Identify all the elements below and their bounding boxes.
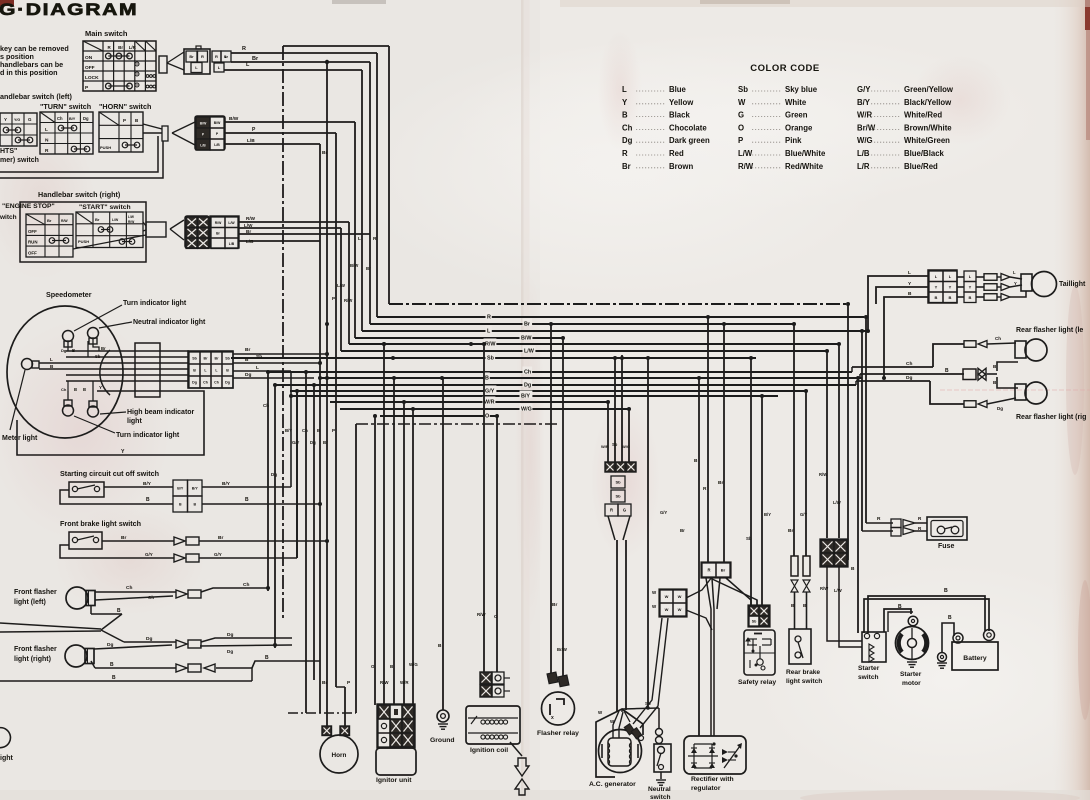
svg-text:"HORN" switch: "HORN" switch <box>99 102 151 111</box>
svg-text:Br: Br <box>47 218 52 223</box>
svg-text:B: B <box>948 615 952 621</box>
svg-text:Br: Br <box>680 528 685 533</box>
svg-text:P: P <box>332 428 335 433</box>
svg-text:Pink: Pink <box>785 136 802 145</box>
svg-text:B/Y: B/Y <box>143 481 152 487</box>
svg-text:Yellow: Yellow <box>669 98 694 107</box>
svg-text:Br: Br <box>118 45 123 50</box>
svg-text:Br: Br <box>721 568 726 573</box>
svg-text:motor: motor <box>902 680 921 687</box>
svg-text:Dg: Dg <box>107 642 113 648</box>
svg-text:L/B: L/B <box>214 143 220 147</box>
svg-text:Turn indicator light: Turn indicator light <box>116 432 180 439</box>
svg-text:B: B <box>438 643 442 649</box>
svg-text:Safety relay: Safety relay <box>738 679 776 686</box>
svg-text:G/Y: G/Y <box>214 552 222 557</box>
svg-text:Sb: Sb <box>738 85 748 94</box>
svg-text:Ch: Ch <box>622 123 633 132</box>
svg-text:light switch: light switch <box>786 678 822 685</box>
svg-text:d in this position: d in this position <box>0 68 58 77</box>
svg-text:Ch: Ch <box>126 585 132 591</box>
svg-text:W/G: W/G <box>857 136 873 145</box>
svg-text:Sb: Sb <box>752 620 757 624</box>
svg-text:R: R <box>215 54 218 59</box>
svg-text:B: B <box>179 503 182 507</box>
svg-text:Ch: Ch <box>524 370 531 376</box>
svg-text:Rectifier with: Rectifier with <box>691 776 734 783</box>
svg-text:Green: Green <box>785 111 808 120</box>
svg-text:Chocolate: Chocolate <box>669 123 707 132</box>
svg-text:Neutral indicator light: Neutral indicator light <box>133 319 206 326</box>
svg-text:light: light <box>127 418 142 425</box>
svg-text:Blue/Red: Blue/Red <box>904 162 938 171</box>
svg-text:Neutral: Neutral <box>648 786 671 793</box>
svg-text:Ch: Ch <box>263 403 269 408</box>
svg-text:Dg: Dg <box>192 381 197 385</box>
svg-text:R: R <box>487 315 491 321</box>
svg-text:Starter: Starter <box>858 665 880 672</box>
svg-text:P: P <box>123 118 126 123</box>
svg-text:R: R <box>610 508 613 513</box>
svg-text:Dg: Dg <box>227 649 233 654</box>
svg-text:"START" switch: "START" switch <box>79 204 131 211</box>
svg-text:Flasher relay: Flasher relay <box>537 730 579 737</box>
svg-text:B: B <box>851 566 855 572</box>
svg-text:R/W: R/W <box>344 298 353 303</box>
svg-text:Br: Br <box>366 266 371 271</box>
svg-text:O: O <box>485 414 489 420</box>
svg-text:Y: Y <box>969 284 972 289</box>
svg-text:Speedometer: Speedometer <box>46 290 92 299</box>
svg-text:L/R: L/R <box>857 162 870 171</box>
svg-text:L: L <box>908 270 911 276</box>
svg-text:W/R: W/R <box>857 111 873 120</box>
svg-text:Ch: Ch <box>995 336 1001 341</box>
svg-text:W: W <box>665 594 669 599</box>
svg-text:R/W: R/W <box>246 216 256 221</box>
svg-text:B/Y: B/Y <box>177 487 184 491</box>
svg-text:Ignitor unit: Ignitor unit <box>376 777 412 784</box>
svg-text:B/Y: B/Y <box>764 512 771 517</box>
svg-text:Ch: Ch <box>203 381 208 385</box>
svg-text:Ch: Ch <box>906 361 912 367</box>
svg-text:Front flasher: Front flasher <box>14 646 57 653</box>
svg-text:Front flasher: Front flasher <box>14 589 57 596</box>
svg-text:B: B <box>110 662 114 668</box>
svg-text:N: N <box>45 138 49 144</box>
svg-text:Br: Br <box>788 528 793 534</box>
svg-text:R/W: R/W <box>820 586 828 591</box>
svg-text:W/R: W/R <box>484 400 495 406</box>
svg-text:Ignition coil: Ignition coil <box>470 747 508 754</box>
svg-text:L: L <box>45 127 48 133</box>
svg-text:Br: Br <box>622 162 631 171</box>
svg-text:Dg: Dg <box>622 136 633 145</box>
svg-text:PUSH: PUSH <box>78 239 89 244</box>
svg-text:B/W: B/W <box>200 122 207 126</box>
svg-text:LOCK: LOCK <box>85 75 99 81</box>
svg-text:W/R: W/R <box>601 444 609 449</box>
svg-text:R/W: R/W <box>738 162 754 171</box>
svg-text:Green/Yellow: Green/Yellow <box>904 85 954 94</box>
svg-text:Blue/Black: Blue/Black <box>904 149 945 158</box>
svg-text:Sb: Sb <box>192 357 197 361</box>
svg-text:R/W: R/W <box>819 472 827 477</box>
svg-text:R: R <box>707 568 710 573</box>
svg-text:L/W: L/W <box>834 588 842 593</box>
svg-text:L/B: L/B <box>200 144 206 148</box>
svg-text:Fuse: Fuse <box>938 543 954 550</box>
svg-text:W/G: W/G <box>521 407 532 413</box>
svg-text:G/Y: G/Y <box>800 512 807 517</box>
svg-text:R/W: R/W <box>380 680 389 685</box>
svg-text:Sb: Sb <box>746 536 752 541</box>
svg-text:R: R <box>373 236 377 242</box>
svg-text:Dg: Dg <box>245 372 251 378</box>
svg-text:witch: witch <box>0 214 17 221</box>
svg-text:Blue/White: Blue/White <box>785 149 826 158</box>
svg-text:G: G <box>623 508 626 513</box>
svg-text:x: x <box>551 715 554 721</box>
svg-text:B: B <box>622 111 628 120</box>
svg-text:W: W <box>665 607 669 612</box>
svg-text:Y: Y <box>99 385 102 390</box>
svg-text:L/B: L/B <box>246 239 254 244</box>
svg-text:Ch: Ch <box>302 428 308 433</box>
svg-text:Y: Y <box>121 449 125 455</box>
svg-text:L/B: L/B <box>247 138 255 144</box>
svg-text:B: B <box>390 664 393 669</box>
svg-text:Ch: Ch <box>243 582 249 588</box>
svg-text:Br: Br <box>218 535 223 541</box>
svg-text:W/R: W/R <box>400 680 409 685</box>
svg-text:B: B <box>898 604 902 610</box>
svg-text:Ch: Ch <box>57 116 63 121</box>
svg-text:B: B <box>245 497 249 503</box>
svg-text:B/Y: B/Y <box>192 487 199 491</box>
svg-text:switch: switch <box>650 794 671 800</box>
svg-text:G/Y: G/Y <box>857 85 871 94</box>
svg-text:R/W: R/W <box>128 220 134 224</box>
svg-text:P: P <box>332 296 335 301</box>
svg-text:Br: Br <box>322 150 327 156</box>
svg-text:R: R <box>201 54 204 59</box>
svg-text:B: B <box>945 368 949 374</box>
svg-text:B/Y: B/Y <box>857 98 871 107</box>
svg-text:L: L <box>622 85 627 94</box>
svg-text:L/W: L/W <box>244 223 253 228</box>
svg-text:B/W: B/W <box>350 263 359 268</box>
svg-text:Orange: Orange <box>785 123 813 132</box>
svg-text:Y: Y <box>4 117 7 122</box>
svg-text:Br: Br <box>322 680 327 686</box>
svg-text:Dg: Dg <box>83 116 89 121</box>
svg-text:B: B <box>694 458 698 464</box>
svg-text:Br: Br <box>95 217 100 222</box>
svg-text:B: B <box>944 588 948 594</box>
svg-text:Br: Br <box>215 357 220 361</box>
svg-text:Br: Br <box>552 602 557 608</box>
svg-text:Black/Yellow: Black/Yellow <box>904 98 952 107</box>
svg-text:Br: Br <box>245 347 250 353</box>
svg-text:Sky blue: Sky blue <box>785 85 818 94</box>
svg-text:P: P <box>738 136 743 145</box>
svg-text:L/W: L/W <box>833 500 841 505</box>
svg-text:OFF: OFF <box>85 65 95 71</box>
svg-text:L/B: L/B <box>857 149 870 158</box>
svg-text:W: W <box>738 98 746 107</box>
svg-text:O: O <box>738 123 744 132</box>
svg-text:Sb: Sb <box>95 354 101 359</box>
svg-text:G/Y: G/Y <box>292 440 300 445</box>
svg-text:Dg: Dg <box>225 381 230 385</box>
svg-text:High beam indicator: High beam indicator <box>127 409 195 416</box>
svg-text:Sb: Sb <box>615 480 621 485</box>
svg-text:B: B <box>117 608 121 614</box>
svg-text:L/W: L/W <box>228 221 235 225</box>
svg-text:Handlebar switch (right): Handlebar switch (right) <box>38 190 121 199</box>
svg-text:Br: Br <box>101 346 106 351</box>
svg-text:B: B <box>72 348 75 353</box>
svg-text:Br/W: Br/W <box>557 647 567 652</box>
svg-text:White/Red: White/Red <box>904 111 942 120</box>
svg-text:R: R <box>242 46 246 52</box>
svg-text:Br: Br <box>121 535 126 541</box>
svg-text:switch: switch <box>858 674 879 681</box>
svg-text:Main switch: Main switch <box>85 29 128 38</box>
svg-text:B: B <box>949 295 952 300</box>
svg-text:Dg: Dg <box>310 440 316 445</box>
svg-text:B: B <box>83 387 86 392</box>
svg-text:White: White <box>785 98 807 107</box>
svg-text:Br/W: Br/W <box>857 123 876 132</box>
svg-text:R/W: R/W <box>477 612 486 617</box>
svg-text:R/W: R/W <box>61 219 68 223</box>
svg-text:Y: Y <box>935 284 938 289</box>
svg-text:W/G: W/G <box>409 662 418 667</box>
svg-text:andlebar switch (left): andlebar switch (left) <box>0 92 72 101</box>
svg-text:RUN: RUN <box>28 240 38 245</box>
svg-text:G/Y: G/Y <box>485 389 495 395</box>
svg-text:Dg: Dg <box>997 406 1003 411</box>
svg-text:L: L <box>50 357 53 362</box>
svg-text:Dg: Dg <box>524 383 531 389</box>
svg-text:regulator: regulator <box>691 785 721 792</box>
svg-text:G·DIAGRAM: G·DIAGRAM <box>0 1 138 19</box>
svg-text:Red: Red <box>669 149 684 158</box>
svg-text:B: B <box>226 369 229 373</box>
svg-text:Dg: Dg <box>61 348 67 353</box>
svg-text:Ch: Ch <box>61 387 67 392</box>
svg-text:Dg: Dg <box>227 632 233 638</box>
svg-text:ight: ight <box>0 755 13 762</box>
svg-text:O: O <box>494 614 498 620</box>
svg-text:Horn: Horn <box>332 752 347 759</box>
svg-text:Front brake light switch: Front brake light switch <box>60 519 141 528</box>
svg-text:B/Y: B/Y <box>222 481 231 487</box>
svg-text:Blue: Blue <box>669 85 687 94</box>
svg-text:W: W <box>678 594 682 599</box>
svg-text:B: B <box>245 357 249 363</box>
svg-text:Sb: Sb <box>612 442 618 447</box>
svg-text:B/Y: B/Y <box>69 117 76 121</box>
svg-text:B/W: B/W <box>229 116 239 122</box>
svg-text:light (left): light (left) <box>14 599 46 606</box>
svg-text:B/Y: B/Y <box>521 394 530 400</box>
svg-text:G/Y: G/Y <box>660 510 667 515</box>
svg-text:OFF: OFF <box>28 250 37 255</box>
svg-text:light (right): light (right) <box>14 656 51 663</box>
svg-text:L/W: L/W <box>524 349 535 355</box>
svg-text:L/W: L/W <box>337 283 346 288</box>
svg-text:Br: Br <box>189 55 194 59</box>
svg-text:L/W: L/W <box>112 218 119 222</box>
svg-text:ON: ON <box>85 55 93 61</box>
svg-text:Dark green: Dark green <box>669 136 710 145</box>
svg-text:Ch: Ch <box>214 381 219 385</box>
svg-text:Meter light: Meter light <box>2 435 38 442</box>
svg-text:Rear brake: Rear brake <box>786 669 820 676</box>
svg-text:W: W <box>678 607 682 612</box>
svg-text:Br: Br <box>252 56 259 62</box>
svg-text:B: B <box>908 291 912 297</box>
svg-text:L: L <box>358 236 361 242</box>
svg-text:O: O <box>371 664 375 669</box>
svg-text:A.C. generator: A.C. generator <box>589 781 636 788</box>
svg-text:B: B <box>969 295 972 300</box>
svg-text:R/W: R/W <box>215 221 222 225</box>
svg-text:Sb: Sb <box>256 354 262 360</box>
svg-text:"TURN" switch: "TURN" switch <box>40 102 91 111</box>
svg-text:Starter: Starter <box>900 671 922 678</box>
svg-text:Red/White: Red/White <box>785 162 824 171</box>
svg-text:L/W: L/W <box>738 149 753 158</box>
svg-text:White/Green: White/Green <box>904 136 950 145</box>
svg-text:G: G <box>28 117 32 122</box>
svg-text:B: B <box>485 376 489 382</box>
svg-text:R/W: R/W <box>485 342 496 348</box>
svg-text:Y: Y <box>949 284 952 289</box>
svg-text:Rear flasher light (rig: Rear flasher light (rig <box>1016 414 1086 421</box>
svg-text:G/Y: G/Y <box>145 552 153 557</box>
svg-text:Br: Br <box>323 440 328 445</box>
svg-text:Turn indicator light: Turn indicator light <box>123 300 187 307</box>
svg-text:Br: Br <box>246 229 251 234</box>
svg-text:L: L <box>256 365 259 371</box>
svg-text:Y: Y <box>622 98 628 107</box>
svg-text:R: R <box>45 148 49 154</box>
svg-text:Dg: Dg <box>271 472 277 477</box>
svg-text:L: L <box>1013 270 1016 275</box>
svg-text:L/R: L/R <box>129 45 137 50</box>
svg-text:B: B <box>146 497 150 503</box>
svg-text:COLOR CODE: COLOR CODE <box>750 63 819 74</box>
svg-text:Ch: Ch <box>148 595 154 600</box>
svg-text:B: B <box>193 369 196 373</box>
svg-text:Br: Br <box>718 480 723 486</box>
svg-text:Dg: Dg <box>906 375 912 381</box>
svg-text:B: B <box>265 655 269 661</box>
svg-text:Y: Y <box>1014 281 1017 286</box>
svg-text:Sb: Sb <box>487 356 495 362</box>
svg-text:OFF: OFF <box>28 229 37 234</box>
svg-text:Br: Br <box>524 322 531 328</box>
svg-text:L/B: L/B <box>229 242 235 246</box>
svg-text:B: B <box>935 295 938 300</box>
svg-text:L/W: L/W <box>128 215 134 219</box>
svg-text:B/W: B/W <box>521 336 532 342</box>
svg-text:Taillight: Taillight <box>1059 281 1086 288</box>
svg-text:Br: Br <box>204 357 209 361</box>
svg-text:HTS": HTS" <box>0 148 17 155</box>
svg-text:Brown/White: Brown/White <box>904 123 952 132</box>
svg-text:PUSH: PUSH <box>100 145 111 150</box>
svg-text:B: B <box>193 503 196 507</box>
svg-text:B: B <box>74 387 77 392</box>
svg-text:"ENGINE STOP": "ENGINE STOP" <box>2 203 55 210</box>
svg-text:Y/G: Y/G <box>14 118 20 122</box>
svg-text:R: R <box>622 149 628 158</box>
svg-text:B/W: B/W <box>214 121 221 125</box>
svg-text:Sb: Sb <box>225 357 230 361</box>
svg-text:Sb: Sb <box>615 494 621 499</box>
svg-text:mer) switch: mer) switch <box>0 157 39 164</box>
svg-text:B: B <box>112 675 116 681</box>
svg-text:G: G <box>738 111 744 120</box>
svg-text:Brown: Brown <box>669 162 693 171</box>
svg-text:R: R <box>703 486 707 492</box>
svg-text:R: R <box>877 516 881 522</box>
svg-text:Rear flasher light (le: Rear flasher light (le <box>1016 327 1083 334</box>
svg-text:Battery: Battery <box>963 655 987 662</box>
svg-text:Ground: Ground <box>430 737 455 744</box>
svg-text:W/G: W/G <box>622 444 630 449</box>
svg-text:Dg: Dg <box>146 636 152 642</box>
svg-text:Starting circuit cut off switc: Starting circuit cut off switch <box>60 469 159 478</box>
svg-text:Black: Black <box>669 111 690 120</box>
